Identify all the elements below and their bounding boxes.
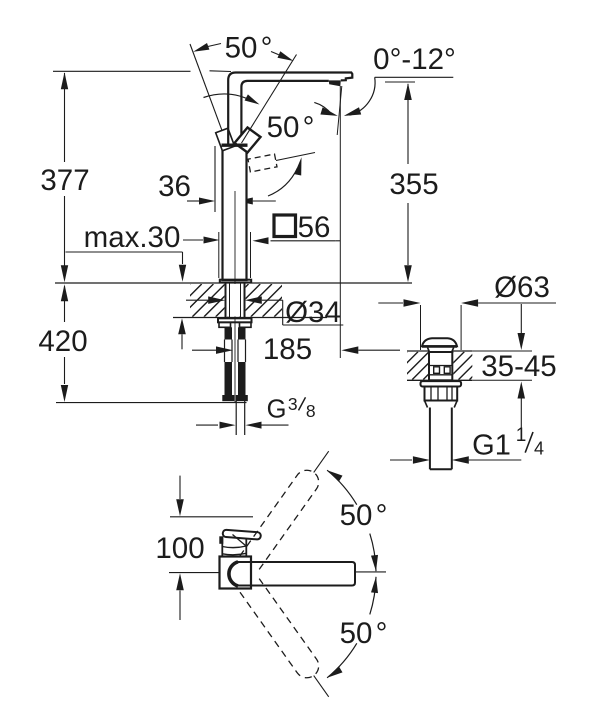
swivel extension line <box>314 676 329 697</box>
36 dim line left tail <box>187 200 199 202</box>
swivel arc upper <box>327 470 357 505</box>
svg-text:50: 50 <box>340 617 373 650</box>
hose stub right <box>238 327 246 339</box>
svg-text:56: 56 <box>298 211 331 244</box>
max.30 leader arrow to body <box>183 239 203 241</box>
spout round end cap <box>229 562 238 586</box>
svg-text:50: 50 <box>340 499 373 532</box>
handle level reference line <box>170 516 253 518</box>
handle edge line <box>233 535 246 546</box>
svg-text:°: ° <box>376 499 388 532</box>
threaded shank <box>225 283 227 319</box>
svg-text:°: ° <box>261 32 273 65</box>
valve washer flange <box>421 381 462 386</box>
dimension 35-45 <box>472 350 532 352</box>
svg-text:°: ° <box>303 111 315 144</box>
hose right <box>238 362 246 395</box>
valve body in deck <box>429 352 452 380</box>
hose end fitting right <box>236 395 248 401</box>
locknut slots <box>430 387 432 401</box>
spout centerline right <box>356 571 386 573</box>
faucet centerline <box>234 191 236 402</box>
svg-text:100: 100 <box>155 532 204 565</box>
valve overflow hole right <box>444 367 450 374</box>
svg-text:G: G <box>267 396 287 424</box>
svg-text:8: 8 <box>306 401 316 421</box>
G3/8 dimension arrows <box>196 424 218 426</box>
square symbol of label 56 <box>274 215 296 237</box>
dimension 377 top arrow <box>61 72 68 89</box>
dimension 420 vertical line <box>64 286 66 322</box>
svg-text:377: 377 <box>40 164 89 197</box>
dimension diameter 63 <box>420 305 422 350</box>
spout centerline left <box>169 572 220 574</box>
0-12 label underline <box>375 76 454 78</box>
dimension 355 vertical line <box>407 84 409 164</box>
max.30 underline <box>66 251 183 253</box>
svg-text:max.30: max.30 <box>84 221 181 254</box>
dimension 377 vertical line <box>64 73 66 162</box>
lever handle open position <box>235 128 261 153</box>
hose left <box>225 362 233 395</box>
body plan square <box>220 557 252 589</box>
base plate left extension line <box>218 232 220 278</box>
body top cap <box>222 143 248 146</box>
svg-text:Ø34: Ø34 <box>285 296 341 329</box>
0-12 degree arc <box>314 102 332 114</box>
max.30 lower arrow (to deck bottom) <box>178 318 186 334</box>
spout outlet vertical reference line <box>339 86 341 358</box>
lever motion arc upper <box>204 94 255 102</box>
valve tailpipe <box>429 408 431 470</box>
valve overflow hole left <box>434 367 440 374</box>
valve locknut <box>425 387 458 401</box>
dashed lever extension line <box>276 153 315 161</box>
top reference line (lever max height) <box>53 70 191 72</box>
dimension 100 <box>179 476 181 499</box>
56 leader line <box>271 240 336 242</box>
deck bottom line <box>173 317 327 319</box>
dimension G1 1/4 <box>390 459 412 461</box>
svg-text:Ø63: Ø63 <box>494 271 550 304</box>
mounting nut plate <box>218 318 252 322</box>
svg-text:185: 185 <box>263 333 312 366</box>
hose thin section <box>224 340 226 363</box>
svg-text:355: 355 <box>389 168 438 201</box>
locknut bottom taper <box>425 401 458 408</box>
lever motion arc lower <box>268 168 298 196</box>
svg-text:4: 4 <box>534 439 544 459</box>
hose end level reference line <box>56 402 247 404</box>
lever left position extension line <box>190 44 222 131</box>
lever open position extension line <box>242 55 297 144</box>
spout dashed position up <box>240 470 319 569</box>
svg-text:G1: G1 <box>472 430 511 462</box>
mounting nut left <box>219 322 231 327</box>
handle plan view <box>223 530 261 540</box>
swivel arc lower <box>370 577 376 615</box>
handle hinge tab <box>219 536 223 544</box>
G3/8 thread stub <box>235 401 237 435</box>
spout pipe <box>228 73 352 147</box>
svg-text:3: 3 <box>288 394 298 414</box>
svg-text:50: 50 <box>267 111 300 144</box>
valve neck taper <box>428 348 454 353</box>
svg-text:420: 420 <box>38 325 87 358</box>
svg-text:50: 50 <box>225 32 258 65</box>
valve cap dome <box>422 338 457 346</box>
36 left extension line <box>214 146 216 212</box>
mounting nut right <box>240 322 252 327</box>
aerator <box>329 80 341 86</box>
spout dashed position down <box>240 579 319 678</box>
handle waist line <box>222 546 246 548</box>
svg-text:0°-12°: 0°-12° <box>373 43 456 76</box>
36 right arrow <box>237 198 253 205</box>
drain deck bottom line <box>407 379 472 381</box>
max.30 upper arrow (to deck top) <box>179 265 186 282</box>
svg-text:35-45: 35-45 <box>481 350 556 383</box>
svg-text:1: 1 <box>516 425 527 446</box>
swivel extension line <box>314 451 329 472</box>
50 deg top left arrow <box>193 43 209 52</box>
base plate right extension line <box>250 232 252 278</box>
dimension diameter 34 <box>186 299 208 301</box>
faucet body column <box>223 145 247 281</box>
hose end fitting left <box>222 395 234 401</box>
svg-text:°: ° <box>376 617 388 650</box>
svg-text:36: 36 <box>158 170 191 203</box>
dimension 185 <box>192 349 216 351</box>
drain deck top line <box>407 350 429 352</box>
hose stub left <box>225 327 233 339</box>
50 deg top right arrow <box>278 51 294 61</box>
dimension 377 bottom arrow <box>61 265 68 282</box>
lever handle left position <box>216 128 235 151</box>
base plate <box>220 280 251 283</box>
outlet level reference line <box>385 81 415 83</box>
spout plan bar <box>238 562 356 586</box>
spout tilted position line <box>337 86 342 135</box>
deck top line <box>55 282 412 284</box>
lever handle dashed position <box>248 154 277 172</box>
